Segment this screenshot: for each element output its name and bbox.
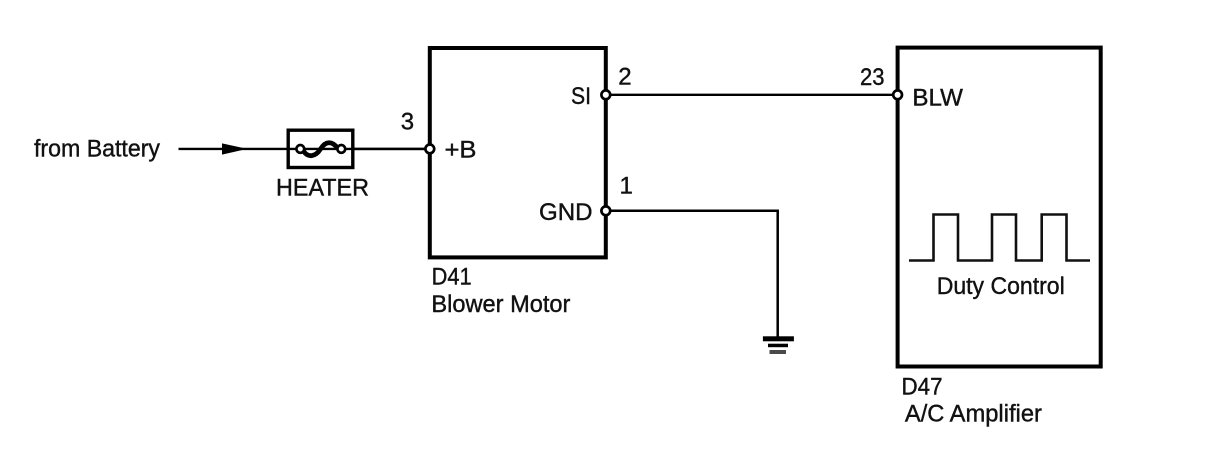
fuse terminal circle left [296,145,304,153]
wire fuse to +B pin [353,148,430,150]
svg-text:from Battery: from Battery [34,136,160,163]
pin BLW terminal circle [893,90,902,99]
svg-text:Duty Control: Duty Control [937,273,1065,300]
svg-text:SI: SI [571,83,591,110]
wire from battery to fuse [179,148,430,150]
fuse element squiggle [304,143,339,156]
wire GND to ground [606,211,778,337]
A/C amplifier box D47 [898,48,1101,367]
duty control waveform [909,215,1090,261]
svg-text:23: 23 [860,64,885,91]
svg-text:GND: GND [539,199,593,226]
svg-text:3: 3 [401,109,414,136]
pin GND terminal circle [601,206,610,215]
wire SI to BLW [606,94,898,96]
blower motor box D41 [430,48,606,257]
svg-text:A/C Amplifier: A/C Amplifier [905,401,1042,428]
pin +B terminal circle [425,145,434,154]
fuse terminal circle right [337,145,345,153]
svg-text:D47: D47 [902,374,943,401]
fuse HEATER box [288,130,353,167]
ground symbol [763,336,794,354]
svg-text:1: 1 [620,173,633,200]
svg-text:Blower Motor: Blower Motor [431,291,570,318]
svg-text:D41: D41 [432,264,472,291]
pin SI terminal circle [601,90,610,99]
svg-text:HEATER: HEATER [276,175,369,202]
svg-text:+B: +B [445,136,477,163]
svg-text:BLW: BLW [912,85,963,112]
svg-text:2: 2 [618,64,631,91]
arrowhead on battery feed [222,143,247,154]
